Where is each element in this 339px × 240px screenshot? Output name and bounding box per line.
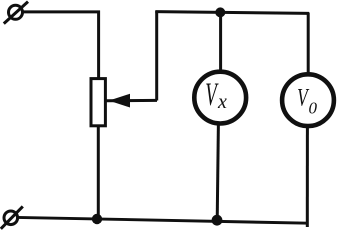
wire wiper riser vertical: [155, 11, 158, 101]
wire top-right corner down to voltmeter V0: [307, 13, 310, 75]
voltmeter Vx: [194, 72, 246, 124]
potentiometer wiper arrow: [107, 94, 158, 106]
node junction bottom-left (dot): [92, 214, 102, 224]
wire left vertical down to potentiometer: [97, 11, 100, 80]
terminal top-left (input): [4, 2, 28, 24]
wire junction down to voltmeter Vx: [219, 12, 222, 72]
terminal bottom-left (input): [1, 206, 23, 228]
potentiometer R body: [91, 79, 105, 126]
voltmeter V0: [282, 74, 334, 126]
wire V0 bottom lead: [306, 126, 309, 227]
node junction bottom-middle (dot): [212, 215, 223, 226]
wire potentiometer bottom lead: [97, 125, 100, 220]
svg-text:0: 0: [309, 99, 318, 118]
wire Vx bottom lead: [217, 123, 218, 221]
svg-text:x: x: [217, 91, 227, 113]
node junction top (dot): [215, 7, 225, 17]
wire bottom bus: [17, 217, 309, 223]
wire top bus right segment: [155, 12, 309, 14]
wire top-left horizontal: [23, 10, 100, 13]
